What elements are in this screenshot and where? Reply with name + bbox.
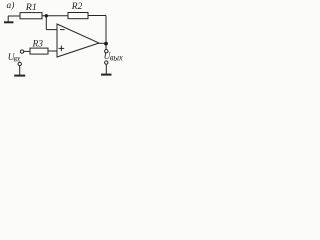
svg-text:R1: R1 [25, 2, 37, 12]
svg-text:а): а) [7, 0, 15, 11]
svg-text:R2: R2 [71, 1, 83, 11]
svg-text:Uвых: Uвых [104, 51, 123, 62]
svg-text:R3: R3 [31, 38, 43, 48]
svg-text:Uвх: Uвх [8, 52, 20, 64]
